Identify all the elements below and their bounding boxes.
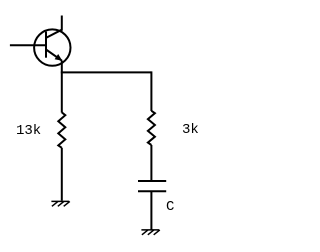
transistor body circle bbox=[34, 29, 70, 65]
wire R2 to capacitor bbox=[150, 145, 152, 181]
emitter arrowhead bbox=[55, 54, 63, 61]
wire capacitor to ground bbox=[150, 191, 152, 230]
capacitor top plate bbox=[138, 180, 166, 182]
emitter diagonal bbox=[46, 50, 62, 61]
wire node horizontal bbox=[62, 71, 152, 72]
base wire bbox=[10, 44, 46, 46]
collector diagonal bbox=[46, 30, 62, 38]
ground left bbox=[51, 201, 69, 206]
resistor R2 3k bbox=[148, 111, 155, 145]
svg-text:13k: 13k bbox=[16, 123, 41, 139]
resistor R1 13k bbox=[58, 112, 65, 147]
svg-text:C: C bbox=[166, 199, 174, 215]
capacitor bottom plate bbox=[138, 190, 166, 192]
wire node down right bbox=[150, 71, 152, 111]
ground right bbox=[141, 230, 159, 235]
wire R1 to ground bbox=[61, 148, 63, 201]
capacitor C bbox=[138, 181, 166, 191]
svg-text:3k: 3k bbox=[182, 122, 199, 138]
base bar bbox=[45, 32, 47, 58]
wire emitter to node bbox=[61, 61, 63, 113]
transistor Q1 bbox=[10, 16, 71, 66]
collector stub wire bbox=[61, 16, 63, 31]
